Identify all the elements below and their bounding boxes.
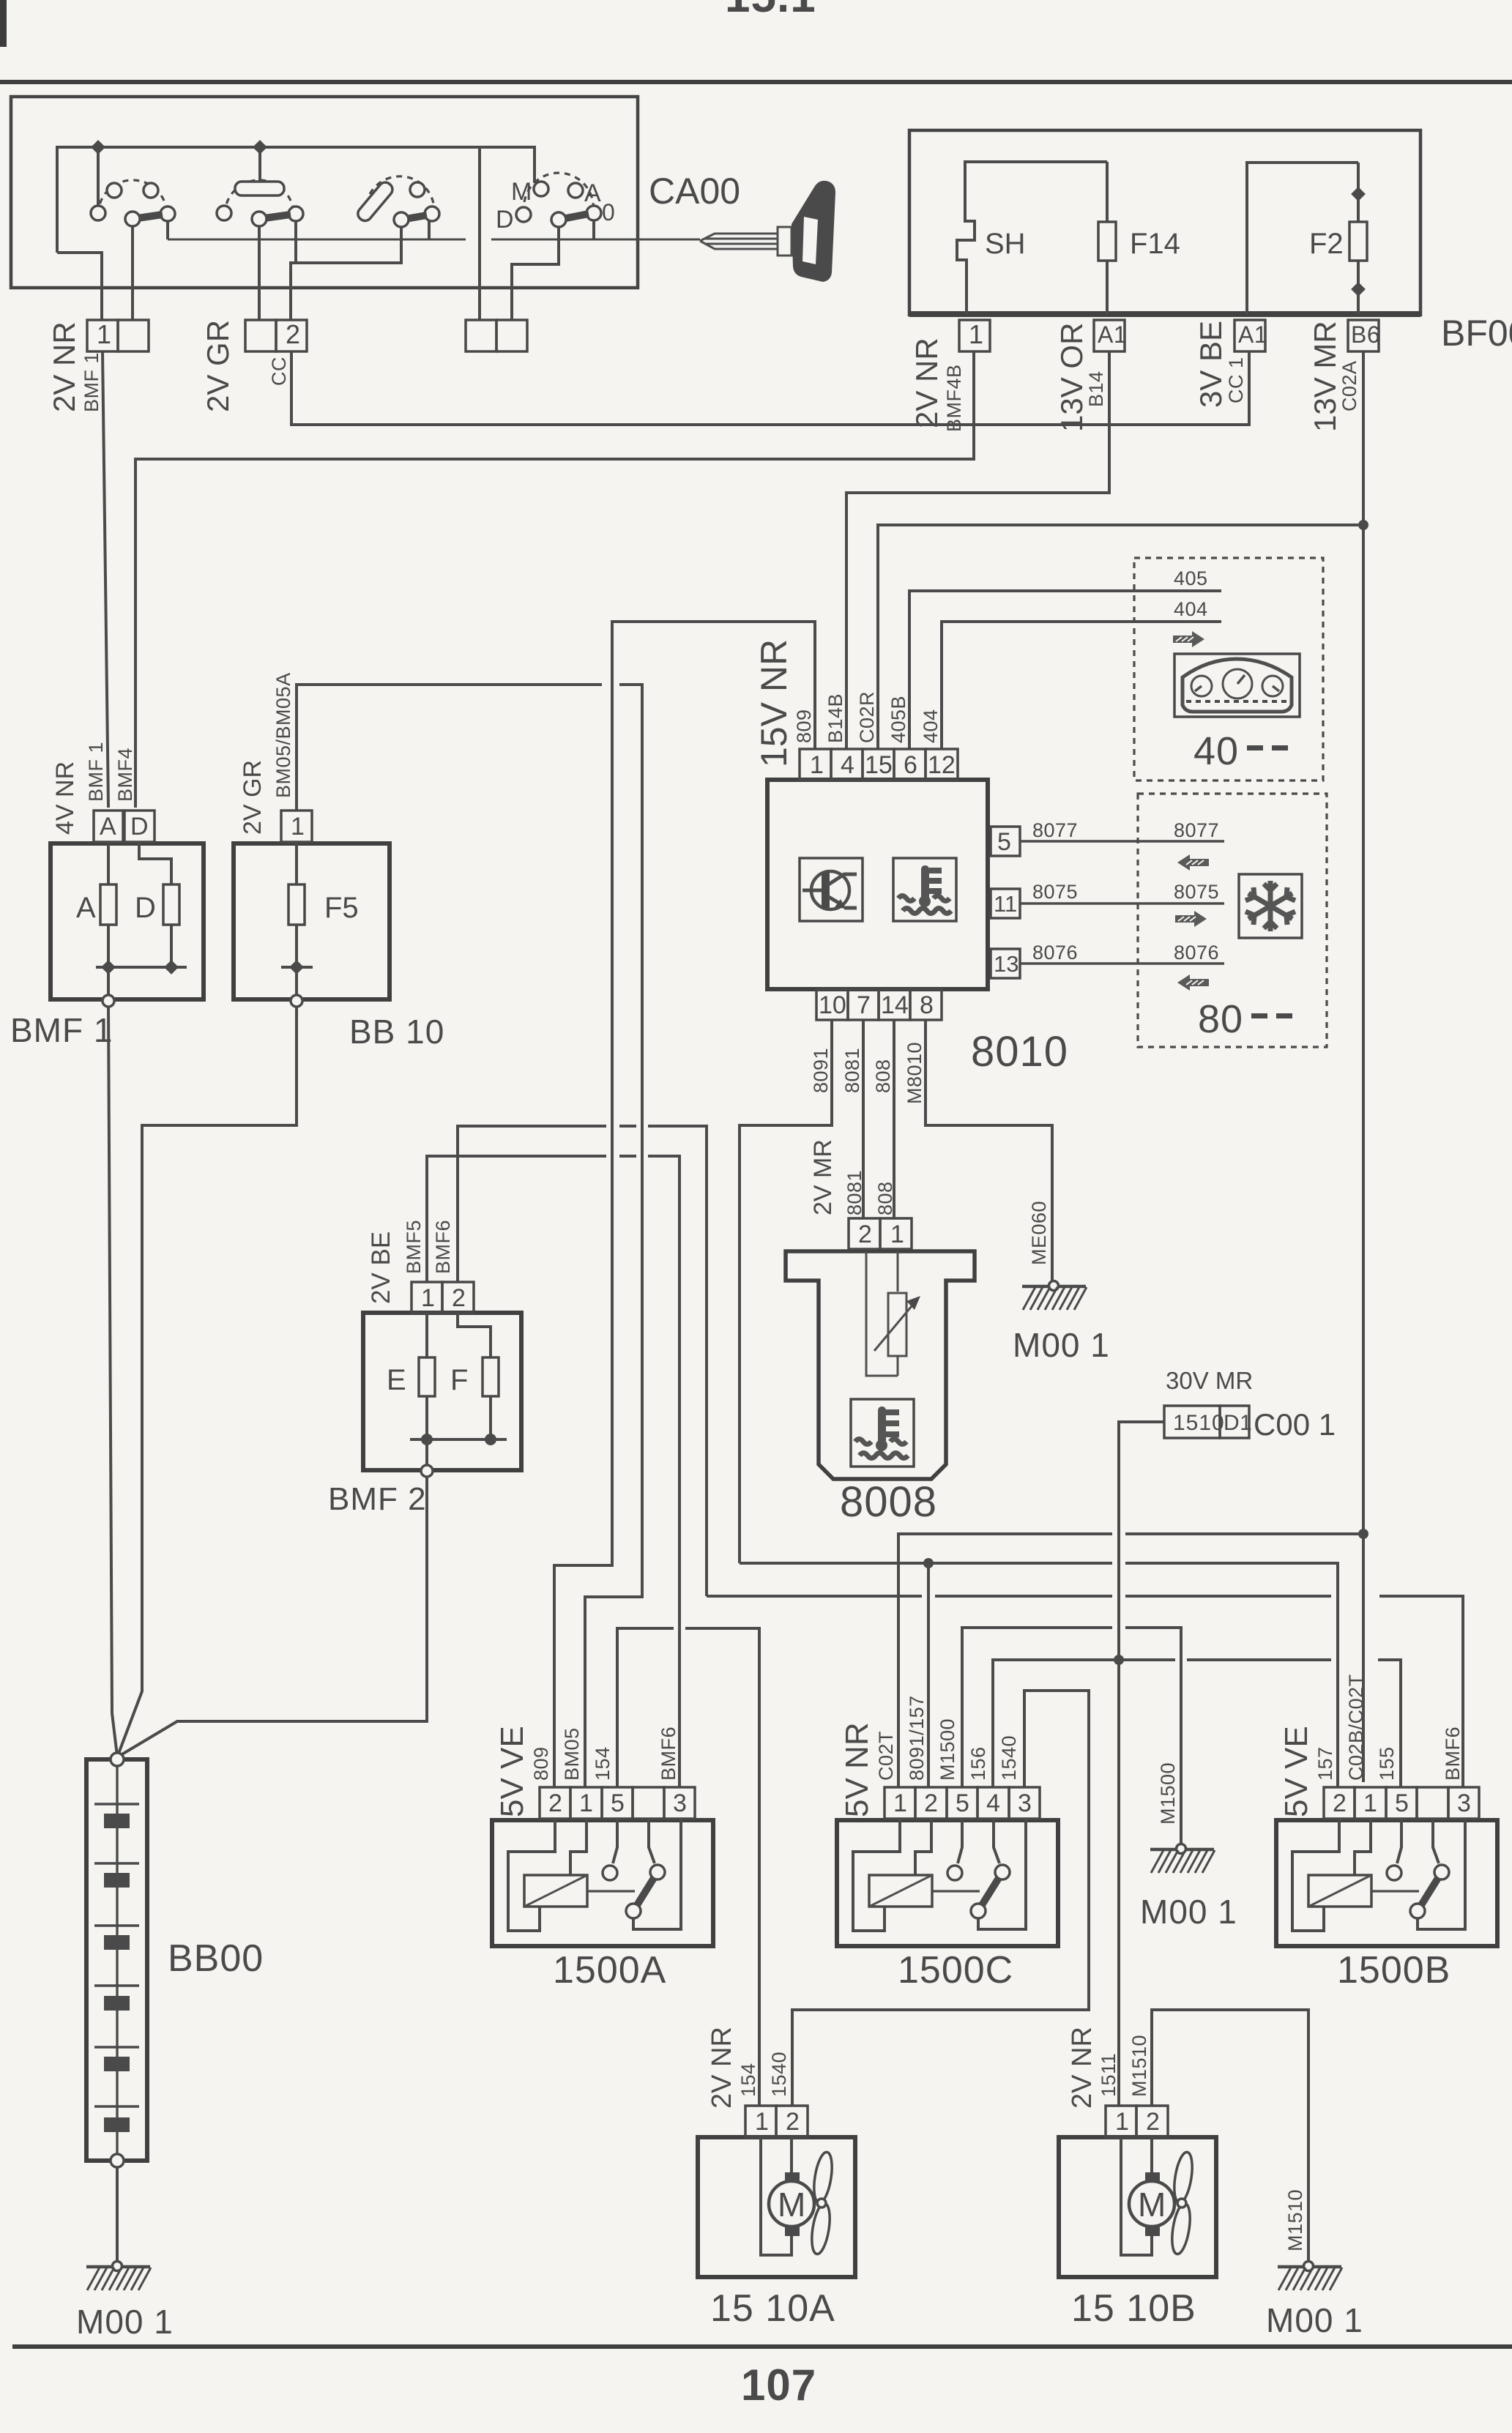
BB00 internal links — [94, 1766, 139, 2154]
wire 8075: pin11 to 80-- — [1020, 902, 1224, 904]
junction on rail (switch 2 feed) — [258, 147, 261, 183]
svg-text:F5: F5 — [324, 892, 359, 924]
svg-text:15V NR: 15V NR — [753, 639, 794, 767]
svg-text:M00 1: M00 1 — [1013, 1326, 1110, 1364]
wire 154: 1500A pin5 to 1510A pin1 — [617, 1628, 759, 2106]
svg-text:6: 6 — [904, 751, 917, 779]
BMF2 bus bar — [410, 1438, 507, 1441]
svg-text:1511: 1511 — [1098, 2053, 1120, 2097]
svg-text:BMF4: BMF4 — [114, 748, 136, 802]
connector pins 10/7/14/8 of 8010 — [816, 989, 942, 1020]
snowflake icon box — [1239, 874, 1302, 938]
wire 8091: 8010 pin10 down to 1500C pin2 and 1500B pin2 — [740, 1020, 1338, 1787]
svg-text:2: 2 — [1146, 2108, 1160, 2136]
wire BMF4B: BF00 pin1 to BMF1 fuse D — [135, 351, 974, 808]
wire BB10 output down to BB00 — [117, 1007, 297, 1757]
fuse F5 — [288, 842, 305, 967]
junction C001 wire / 156 line — [1114, 1655, 1124, 1665]
wire BM05: BB10 pin1 up and over to 1500A pin1 — [297, 685, 642, 1787]
svg-text:5V NR: 5V NR — [839, 1722, 875, 1817]
wire BMF5: BMF2 pin1 up and over to 1500A pin3 — [427, 1156, 679, 1787]
connector pins 2/1 of 8008 — [849, 1218, 912, 1249]
ground M1500 — [1150, 1844, 1215, 1874]
wire 8077: pin5 to 80-- — [1020, 840, 1224, 842]
svg-text:8075: 8075 — [1174, 881, 1219, 903]
fuse E of BMF2 — [419, 1313, 435, 1439]
svg-text:8076: 8076 — [1174, 942, 1219, 964]
wire: S4 contact 0 to common line — [592, 220, 595, 239]
wire BMF1: CA00 pin1 to BMF1 fuse A — [103, 351, 108, 808]
label 80-- — [1198, 997, 1292, 1041]
connector pins 1/2 of BMF2 — [411, 1282, 474, 1313]
svg-text:M: M — [778, 2186, 805, 2224]
svg-text:1: 1 — [890, 1221, 904, 1248]
svg-text:5: 5 — [1395, 1789, 1409, 1817]
bottom rule — [12, 2344, 1512, 2349]
relay 1500B box — [1276, 1820, 1497, 1946]
svg-text:BMF 2: BMF 2 — [328, 1481, 427, 1517]
wire: S3 moving contact drop — [400, 227, 403, 263]
wire M1510: 1510B pin2 to ground — [1152, 2010, 1308, 2262]
arrow out 8076 — [1177, 975, 1209, 991]
fan blades of 1510A — [809, 2151, 835, 2256]
svg-text:8075: 8075 — [1032, 881, 1078, 903]
svg-text:13V MR: 13V MR — [1308, 321, 1342, 432]
wire BMF1 output down to BB00 — [108, 1007, 117, 1756]
svg-text:1540: 1540 — [998, 1735, 1020, 1781]
page scan edge artifact top-left — [0, 0, 7, 47]
wire: common line to ignition key — [168, 239, 700, 241]
electronic control unit 8010 box — [767, 780, 988, 989]
BB10 output terminal — [291, 967, 302, 1007]
connector pins 2/1/5/-/3 of 1500A — [540, 1787, 695, 1819]
wire: S2 moving contact to connector — [258, 226, 261, 320]
svg-text:15 10A: 15 10A — [710, 2287, 835, 2330]
svg-text:BMF 1: BMF 1 — [85, 742, 107, 802]
ground ME060 — [1022, 1281, 1087, 1311]
svg-text:2V GR: 2V GR — [201, 320, 235, 412]
junction diamond F5 — [289, 960, 304, 975]
svg-text:154: 154 — [737, 2063, 759, 2097]
wire: CA00 internal supply rail — [57, 147, 535, 320]
switch S2 contacts with pill (CA00) — [217, 180, 303, 226]
junction C02A/C02T — [1358, 1529, 1368, 1539]
svg-text:SH: SH — [985, 228, 1026, 260]
svg-text:808: 808 — [872, 1059, 894, 1093]
wire: S1 moving contact to connector — [131, 226, 134, 320]
ground M1510 — [1278, 2262, 1342, 2291]
svg-text:12: 12 — [928, 751, 956, 779]
svg-text:A: A — [584, 179, 601, 207]
arrow into cluster — [1173, 631, 1204, 647]
svg-text:1500B: 1500B — [1337, 1949, 1450, 1992]
svg-text:C02A: C02A — [1338, 360, 1360, 411]
svg-text:3: 3 — [1018, 1789, 1032, 1817]
coolant temperature sensor 8008 — [786, 1251, 975, 1479]
fuse holder BMF1 box — [51, 843, 204, 999]
svg-text:1: 1 — [810, 751, 824, 779]
svg-text:1500A: 1500A — [553, 1949, 666, 1992]
svg-text:5: 5 — [611, 1789, 625, 1817]
connector 1510/D1 C001 — [1164, 1406, 1252, 1438]
svg-text:154: 154 — [592, 1746, 614, 1781]
fan motor 1510A box — [698, 2137, 855, 2277]
connector pins 1/2/5/4/3 of 1500C — [885, 1787, 1040, 1819]
motor M of 1510A — [761, 2137, 814, 2255]
fuse A of BMF1 — [100, 842, 116, 967]
svg-text:157: 157 — [1314, 1746, 1336, 1781]
svg-text:BMF4B: BMF4B — [943, 364, 965, 432]
svg-text:M1500: M1500 — [1157, 1762, 1179, 1825]
svg-text:1: 1 — [969, 319, 983, 349]
ignition key symbol — [700, 181, 835, 282]
svg-text:BB00: BB00 — [168, 1937, 264, 1980]
connector pins 1/4/15/6/12 of 8010 — [800, 749, 958, 780]
svg-text:809: 809 — [793, 709, 815, 743]
svg-text:2: 2 — [452, 1284, 466, 1312]
A/C control dashed box 80-- — [1138, 794, 1327, 1047]
svg-text:1510: 1510 — [1173, 1411, 1225, 1435]
svg-text:A1: A1 — [1238, 321, 1267, 348]
svg-text:40: 40 — [1193, 729, 1239, 773]
svg-text:D1: D1 — [1224, 1411, 1252, 1435]
connector pin A1 of BF00 (CC1) — [1234, 320, 1267, 351]
svg-text:1: 1 — [893, 1789, 907, 1817]
svg-text:155: 155 — [1376, 1746, 1398, 1781]
battery junction box BB00 — [86, 1759, 147, 2161]
fuse F14 — [1098, 162, 1116, 314]
svg-text:2V NR: 2V NR — [1067, 2027, 1098, 2109]
wire 8076: pin13 to 80-- — [1020, 962, 1224, 964]
svg-text:2: 2 — [286, 319, 300, 349]
svg-text:M: M — [511, 178, 532, 206]
junction dot fuse E — [421, 1434, 433, 1445]
svg-text:M8010: M8010 — [904, 1042, 926, 1104]
fuse F2 — [1349, 222, 1367, 261]
svg-text:2: 2 — [786, 2108, 800, 2136]
connector pins A/B of CA00 ignition — [466, 320, 527, 351]
svg-text:C02T: C02T — [875, 1731, 897, 1781]
connector pins A/D of BMF1 — [94, 811, 154, 842]
BMF1 output terminal — [103, 967, 114, 1007]
connector pins -/2 of CA00 — [245, 319, 307, 351]
svg-text:2V BE: 2V BE — [367, 1232, 395, 1304]
svg-text:4: 4 — [841, 751, 854, 779]
relay 1500C switch — [947, 1819, 1026, 1929]
svg-text:M: M — [1138, 2186, 1166, 2224]
thermistor (variable resistor) in 8008 — [874, 1293, 920, 1356]
wire B14: BF00 A1 to 8010 pin4 — [846, 351, 1109, 749]
wire CC: CA00 pin2 to BF00 CC1 — [291, 351, 1249, 425]
svg-text:1500C: 1500C — [898, 1949, 1013, 1992]
svg-text:8091/157: 8091/157 — [906, 1695, 928, 1781]
wire: S4 moving contact to connector B — [512, 227, 559, 320]
wire: S1 fixed contact to common line — [166, 221, 169, 239]
svg-text:1: 1 — [1363, 1789, 1377, 1817]
BB00 input terminal — [111, 1753, 124, 1766]
connector pin B6 of BF00 — [1348, 320, 1380, 351]
svg-text:3V BE: 3V BE — [1193, 321, 1228, 408]
svg-text:BMF 1: BMF 1 — [10, 1011, 113, 1049]
svg-text:8091: 8091 — [810, 1048, 832, 1093]
junction diamond below F2 — [1351, 282, 1366, 297]
svg-text:8077: 8077 — [1032, 819, 1078, 841]
svg-text:8076: 8076 — [1032, 942, 1078, 964]
svg-text:2: 2 — [548, 1789, 562, 1817]
svg-text:BMF 1: BMF 1 — [81, 352, 103, 412]
wire BB00 to ground — [116, 2167, 119, 2262]
wire: S3 fixed contact to common line — [428, 221, 431, 239]
ignition switch unit CA00 box — [11, 97, 638, 288]
junction C02A/C02R — [1358, 520, 1368, 530]
svg-text:C02R: C02R — [856, 691, 878, 743]
connector pin 1 of BB10 — [281, 811, 312, 842]
svg-text:BM05/BM05A: BM05/BM05A — [272, 672, 294, 798]
svg-text:D: D — [135, 892, 156, 924]
svg-text:CA00: CA00 — [649, 171, 740, 212]
transistor icon in 8010 — [800, 858, 863, 921]
connector pin A1 of BF00 (F14) — [1094, 320, 1127, 351]
fan motor 1510B box — [1059, 2137, 1216, 2277]
BB10 bus bar — [281, 966, 313, 969]
svg-text:5: 5 — [956, 1789, 969, 1817]
svg-text:8010: 8010 — [971, 1028, 1068, 1076]
wire C02T: C02A node to 1500C pin1 — [898, 1534, 1358, 1787]
connector pins 2/1/5/-/3 of 1500B — [1324, 1787, 1479, 1819]
svg-text:4V NR: 4V NR — [51, 761, 79, 835]
svg-text:BF00: BF00 — [1441, 313, 1512, 354]
fuse D of BMF1 — [139, 842, 179, 967]
svg-text:1: 1 — [97, 319, 111, 349]
wire BMF2 output to BB00 — [117, 1477, 427, 1757]
svg-text:3: 3 — [673, 1789, 687, 1817]
wire drop to 1500C pin2 — [927, 1563, 930, 1787]
connector pins 1/- of CA00 — [87, 319, 149, 351]
switch S3 contacts with tilted pill (CA00) — [355, 176, 439, 227]
wire 8081: 8010 pin7 to 8008 pin2 — [862, 1020, 865, 1218]
svg-text:1: 1 — [755, 2108, 769, 2136]
svg-text:2V NR: 2V NR — [47, 321, 81, 412]
fuse F of BMF2 — [458, 1313, 499, 1439]
svg-text:5: 5 — [997, 828, 1011, 856]
svg-text:C02B/C02T: C02B/C02T — [1345, 1674, 1367, 1781]
svg-text:2: 2 — [1333, 1789, 1347, 1817]
svg-text:M00 1: M00 1 — [76, 2303, 174, 2341]
svg-text:2V NR: 2V NR — [707, 2027, 737, 2109]
svg-text:13V OR: 13V OR — [1054, 323, 1089, 432]
arrow in 8075 — [1175, 911, 1207, 927]
svg-text:5V VE: 5V VE — [1278, 1726, 1314, 1817]
wire 808: 8010 pin14 to 8008 pin1 — [893, 1020, 895, 1218]
connector pin 13 of 8010 — [991, 949, 1020, 978]
connector pin 1 of BF00 — [959, 319, 990, 351]
svg-text:1: 1 — [291, 813, 305, 841]
svg-text:D: D — [130, 813, 149, 841]
junction diamond fuse D — [164, 960, 179, 975]
coolant temperature icon in 8008 — [851, 1399, 914, 1467]
relay 1500C box — [837, 1820, 1058, 1946]
svg-text:M1500: M1500 — [936, 1718, 958, 1781]
coolant temperature icon in 8010 — [893, 858, 956, 921]
svg-text:8077: 8077 — [1174, 819, 1219, 841]
svg-text:B6: B6 — [1351, 321, 1380, 348]
fuse holder BB10 box — [234, 843, 390, 999]
svg-text:15: 15 — [865, 751, 893, 779]
svg-text:A1: A1 — [1098, 321, 1127, 348]
svg-text:15 10B: 15 10B — [1071, 2287, 1196, 2330]
svg-text:2V MR: 2V MR — [809, 1139, 837, 1215]
svg-text:404: 404 — [1174, 598, 1208, 620]
svg-text:1: 1 — [1115, 2108, 1129, 2136]
svg-text:13: 13 — [994, 951, 1018, 977]
svg-text:D: D — [496, 206, 514, 234]
svg-text:404: 404 — [920, 709, 942, 743]
svg-text:14: 14 — [881, 991, 909, 1019]
wire 156/155: 1500C pin4 via C001 node to 1500B pin5 — [993, 1660, 1401, 1787]
svg-text:1: 1 — [579, 1789, 593, 1817]
svg-text:4: 4 — [986, 1789, 1000, 1817]
wire BMF6: BMF2 pin2 up and over to 1500B pin3 — [458, 1126, 1463, 1787]
svg-text:809: 809 — [530, 1746, 552, 1781]
svg-text:BB 10: BB 10 — [349, 1013, 444, 1051]
svg-text:2V NR: 2V NR — [909, 338, 944, 428]
switch S4 ignition contacts M A D 0 (CA00) — [516, 173, 601, 227]
svg-text:5V VE: 5V VE — [494, 1726, 530, 1817]
svg-text:30V MR: 30V MR — [1166, 1367, 1253, 1394]
svg-text:80: 80 — [1198, 997, 1243, 1041]
svg-text:F14: F14 — [1130, 228, 1180, 260]
wire 1540: 1500C pin3 to 1510A pin2 — [792, 1691, 1089, 2106]
connector pin 5 of 8010 — [991, 827, 1020, 856]
wire: S2 fixed contact to node with S3 — [291, 221, 403, 320]
connector pins 1/2 of 1510A — [745, 2106, 808, 2137]
svg-text:405: 405 — [1174, 567, 1208, 589]
BMF1 output bus bar — [96, 966, 187, 969]
svg-text:M1510: M1510 — [1128, 2035, 1150, 2097]
BB00 output terminal — [111, 2154, 124, 2167]
svg-text:10: 10 — [819, 991, 846, 1019]
relay 1500A switch — [603, 1819, 681, 1929]
wire 404: 8010 pin12 to cluster 404 — [942, 622, 1221, 749]
svg-text:3: 3 — [1457, 1789, 1471, 1817]
svg-text:B14: B14 — [1085, 370, 1107, 407]
svg-text:2: 2 — [858, 1221, 872, 1248]
svg-text:M1510: M1510 — [1284, 2189, 1306, 2251]
ground below BB00 — [86, 2262, 151, 2291]
svg-text:BMF6: BMF6 — [658, 1726, 679, 1781]
svg-text:A: A — [100, 813, 116, 841]
junction diamond fuse A — [101, 960, 116, 975]
svg-text:F: F — [450, 1364, 468, 1396]
wire C02R: 8010 pin15 to C02A node — [878, 525, 1358, 749]
svg-text:8081: 8081 — [841, 1048, 863, 1093]
svg-text:15.1: 15.1 — [725, 0, 816, 22]
fuse holder BMF2 box — [363, 1313, 521, 1470]
svg-text:A: A — [76, 892, 96, 924]
wire: CA00 frame drop to connector A — [478, 147, 481, 320]
svg-text:B14B: B14B — [824, 693, 846, 743]
wire 405B: 8010 pin6 to cluster 405 — [909, 591, 1221, 749]
relay 1500C coil — [853, 1819, 980, 1931]
svg-text:107: 107 — [741, 2361, 816, 2410]
svg-text:8: 8 — [920, 991, 934, 1019]
junction 8091/157 at 1500C pin2 — [923, 1558, 934, 1568]
instrument cluster dashed box 40-- — [1134, 558, 1323, 780]
fan blades of 1510B — [1169, 2151, 1196, 2256]
fuse F2 branch outline — [1247, 163, 1358, 314]
svg-text:2V GR: 2V GR — [239, 760, 267, 835]
svg-text:2: 2 — [924, 1789, 938, 1817]
wire M8010: 8010 pin8 to ground ME060 — [926, 1020, 1052, 1282]
svg-text:F2: F2 — [1309, 228, 1344, 260]
svg-text:BMF5: BMF5 — [403, 1220, 425, 1274]
motor M of 1510B — [1121, 2137, 1174, 2255]
relay 1500B coil — [1292, 1819, 1419, 1931]
top rule — [0, 80, 1512, 84]
svg-text:CC: CC — [268, 357, 290, 386]
svg-text:1540: 1540 — [768, 2052, 790, 2097]
wire M1500: 1500C pin5 to ground — [962, 1628, 1181, 1844]
connector pin 11 of 8010 — [991, 889, 1020, 918]
svg-text:11: 11 — [994, 891, 1017, 917]
svg-text:BMF6: BMF6 — [1442, 1726, 1464, 1781]
svg-text:M00 1: M00 1 — [1140, 1893, 1237, 1931]
junction diamond above F2 — [1351, 187, 1366, 201]
connector pins 1/2 of 1510B — [1106, 2106, 1168, 2137]
relay 1500A coil — [508, 1819, 635, 1931]
8008 internal sensor well — [866, 1251, 898, 1376]
wire C02A: BF00 B6 down to 1500B pin1 — [1362, 351, 1365, 1782]
arrow out 8077 — [1177, 854, 1209, 871]
instrument cluster icon — [1174, 654, 1300, 717]
svg-text:BMF6: BMF6 — [432, 1220, 454, 1274]
svg-text:156: 156 — [967, 1746, 989, 1781]
BMF2 output terminal — [421, 1439, 433, 1477]
svg-text:405B: 405B — [887, 696, 909, 743]
label 40-- — [1193, 729, 1288, 773]
shunt SH outline — [957, 162, 1107, 314]
svg-text:CC 1: CC 1 — [1225, 357, 1247, 403]
svg-text:ME060: ME060 — [1028, 1201, 1050, 1265]
svg-text:0: 0 — [602, 199, 615, 226]
relay 1500B switch — [1387, 1819, 1465, 1929]
svg-text:E: E — [387, 1364, 406, 1396]
svg-text:BM05: BM05 — [561, 1727, 583, 1781]
svg-text:8008: 8008 — [840, 1478, 937, 1526]
wire 1510/1511: C001 to 1510B pin1 — [1119, 1422, 1164, 2106]
svg-text:M00 1: M00 1 — [1266, 2301, 1363, 2339]
switch S1 contacts (CA00) — [91, 180, 175, 226]
svg-text:C00 1: C00 1 — [1254, 1407, 1336, 1442]
wire 15V NR feed into 8010 pin1 — [554, 622, 815, 1787]
junction on rail (switch 1 feed) — [97, 147, 100, 206]
fuse box BF00 — [909, 130, 1420, 317]
svg-text:1: 1 — [421, 1284, 435, 1312]
svg-text:7: 7 — [857, 991, 871, 1019]
junction dot fuse F — [485, 1434, 496, 1445]
relay 1500A box — [492, 1820, 713, 1946]
